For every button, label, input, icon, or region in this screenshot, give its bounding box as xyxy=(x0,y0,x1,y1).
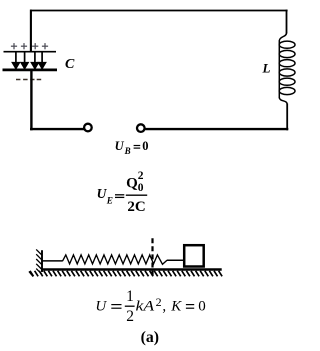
wire top xyxy=(30,10,288,12)
svg-text:,: , xyxy=(162,298,166,314)
svg-text:2: 2 xyxy=(126,308,134,325)
svg-text:2: 2 xyxy=(138,170,144,182)
formula UE = Q0^2 / 2C xyxy=(97,170,148,215)
wire right upper (top wire to inductor) xyxy=(286,10,288,34)
inductor L xyxy=(279,33,295,104)
equilibrium dashed line xyxy=(151,238,153,276)
capacitor C bottom plate xyxy=(3,69,58,72)
svg-text:0: 0 xyxy=(138,182,144,194)
switch terminal circle left xyxy=(84,124,92,132)
svg-text:C: C xyxy=(65,57,75,72)
minus charges below bottom plate xyxy=(16,79,41,81)
formula U = 1/2 kA^2, K = 0 xyxy=(95,288,205,325)
svg-text:0: 0 xyxy=(198,298,206,314)
spring attach line xyxy=(42,260,63,262)
floor line xyxy=(41,268,222,270)
svg-text:U: U xyxy=(115,139,125,153)
label UB = 0 xyxy=(115,139,149,156)
svg-text:U: U xyxy=(95,298,107,314)
svg-text:2: 2 xyxy=(156,295,162,309)
switch terminal circle right xyxy=(137,124,145,132)
wire bottom-right xyxy=(145,128,288,130)
wall hatching xyxy=(29,249,42,276)
capacitor C top plate xyxy=(4,51,57,53)
wire left upper (top wire to capacitor top plate) xyxy=(30,10,32,52)
wall xyxy=(41,250,43,272)
svg-text:2C: 2C xyxy=(127,199,145,215)
connector spring to mass xyxy=(167,259,184,261)
svg-text:Q: Q xyxy=(126,176,138,192)
wire bottom-left (to switch terminal) xyxy=(30,128,84,130)
wire right lower (inductor to bottom wire) xyxy=(286,104,288,131)
wire left lower (capacitor to bottom wire) xyxy=(30,70,32,130)
svg-text:L: L xyxy=(262,61,271,76)
plus charges above top plate xyxy=(11,43,48,49)
svg-text:B: B xyxy=(124,146,131,156)
spring zigzag xyxy=(63,255,167,264)
svg-text:0: 0 xyxy=(142,139,148,153)
svg-text:K: K xyxy=(170,298,182,314)
svg-text:E: E xyxy=(106,197,113,207)
svg-text:1: 1 xyxy=(126,288,134,305)
svg-text:kA: kA xyxy=(136,298,156,314)
field arrows between plates xyxy=(13,52,46,68)
floor hatching xyxy=(30,271,222,277)
mass block xyxy=(184,245,204,266)
svg-text:(a): (a) xyxy=(141,329,159,346)
